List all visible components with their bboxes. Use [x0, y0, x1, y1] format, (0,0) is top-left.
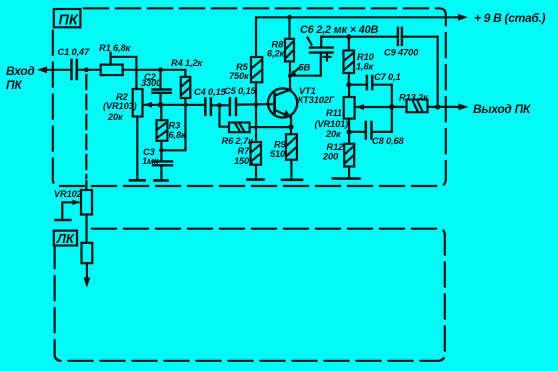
- resistor R2 (VR103): [133, 89, 143, 117]
- capacitor C3: [153, 160, 172, 162]
- C7/C8 vertical: [391, 85, 393, 132]
- capacitor C9: [397, 28, 400, 45]
- wire R1 to R4 corner: [123, 70, 186, 77]
- collector vertical: [289, 61, 291, 89]
- LK label box: [54, 231, 77, 246]
- svg-text:ПК: ПК: [6, 78, 23, 92]
- potentiometer VR102: [81, 190, 92, 215]
- 5V annotation leader: [293, 68, 300, 74]
- resistor R12: [344, 144, 354, 167]
- PK block dashed border: [53, 8, 446, 186]
- wire VR102 down: [85, 215, 87, 243]
- svg-text:ЛК: ЛК: [56, 231, 75, 246]
- wire C9 right, down to output: [402, 37, 438, 107]
- link R3 bottom to wiper junction: [161, 105, 185, 150]
- svg-text:(VR103): (VR103): [103, 101, 137, 111]
- lower resistor (LK section): [82, 243, 93, 263]
- ground under R7: [248, 178, 264, 181]
- R3 leads: [160, 105, 162, 120]
- R8 top lead: [288, 17, 290, 39]
- PK label box: [54, 9, 81, 27]
- svg-text:R4 1,2к: R4 1,2к: [171, 58, 203, 68]
- svg-text:510: 510: [270, 149, 286, 159]
- svg-text:Выход ПК: Выход ПК: [473, 102, 532, 116]
- svg-text:C5 0,15: C5 0,15: [224, 86, 256, 96]
- wire C5 to base: [236, 103, 273, 106]
- resistor R11 (VR101): [344, 97, 355, 119]
- svg-text:750к: 750к: [229, 71, 250, 81]
- svg-text:R11: R11: [326, 108, 342, 118]
- R10 leads: [348, 37, 350, 51]
- svg-text:C7 0,1: C7 0,1: [374, 72, 401, 82]
- R2 ground lead: [136, 117, 138, 181]
- resistor R9: [286, 134, 297, 160]
- VR102 wiper: [62, 202, 78, 220]
- resistor R3: [157, 120, 168, 141]
- node dots: [84, 15, 440, 153]
- R11 leads: [348, 85, 350, 97]
- input arrow: [37, 66, 47, 73]
- svg-text:R10: R10: [357, 52, 375, 62]
- transistor VT1: [268, 88, 297, 117]
- resistor R13: [407, 100, 428, 113]
- capacitor C8: [365, 122, 368, 139]
- wire R6 to emitter: [250, 126, 291, 128]
- svg-text:R6 2,7к: R6 2,7к: [222, 136, 254, 146]
- svg-text:R13 2к: R13 2к: [399, 93, 429, 103]
- svg-text:R3: R3: [169, 121, 182, 131]
- R12 leads: [348, 132, 350, 144]
- svg-text:5В: 5В: [299, 63, 311, 73]
- wire C1 to R1: [77, 69, 101, 71]
- svg-text:+ 9 В (стаб.): + 9 В (стаб.): [474, 11, 546, 25]
- svg-text:ПК: ПК: [59, 13, 79, 29]
- R7 ground lead: [255, 165, 257, 180]
- svg-text:VR102: VR102: [54, 189, 83, 199]
- dashed link to VR102: [85, 75, 87, 178]
- capacitor C1: [70, 60, 73, 79]
- C6 label leader: [308, 38, 312, 45]
- capacitor C6 (electrolytic): [310, 46, 333, 48]
- ground under R12: [333, 177, 360, 180]
- svg-text:6,8к: 6,8к: [169, 130, 187, 140]
- svg-text:1,8к: 1,8к: [356, 62, 374, 72]
- resistor R4: [181, 77, 191, 98]
- resistor R10: [344, 51, 355, 74]
- resistor R8: [285, 39, 294, 62]
- top coupling wire: [321, 36, 397, 38]
- svg-text:200: 200: [322, 152, 339, 162]
- wire C4 to C5: [211, 104, 230, 106]
- svg-text:C1 0,47: C1 0,47: [58, 47, 90, 57]
- R4 bottom lead: [184, 98, 186, 105]
- output wire: [392, 106, 407, 108]
- svg-text:R12: R12: [327, 142, 345, 152]
- resistor R1: [101, 65, 123, 76]
- capacitor C7: [366, 76, 369, 89]
- svg-text:C9 4700: C9 4700: [384, 48, 419, 58]
- resistor R6: [229, 123, 250, 133]
- wire junction down to R2: [135, 70, 137, 89]
- ground under R9: [282, 179, 302, 182]
- svg-text:6,2к: 6,2к: [267, 49, 285, 59]
- ground under C3: [155, 179, 168, 182]
- ground under VR102 wiper: [56, 219, 71, 222]
- svg-text:(VR101): (VR101): [315, 119, 349, 129]
- svg-text:R1 6,8к: R1 6,8к: [99, 43, 131, 53]
- svg-text:C4 0,15: C4 0,15: [194, 87, 226, 97]
- R1 tap: [111, 57, 137, 70]
- svg-text:C6 2,2 мк × 40В: C6 2,2 мк × 40В: [300, 24, 378, 36]
- svg-text:20к: 20к: [325, 129, 342, 139]
- svg-text:R9: R9: [274, 140, 287, 150]
- R11 wiper line: [357, 106, 392, 108]
- svg-text:3300: 3300: [141, 78, 162, 88]
- emitter vertical: [290, 117, 292, 134]
- R9 ground lead: [290, 160, 292, 180]
- svg-text:C8 0,68: C8 0,68: [372, 136, 404, 146]
- ground under R2: [130, 179, 145, 182]
- resistor R7: [251, 142, 262, 165]
- R2 wiper line: [145, 104, 206, 106]
- drop to R6: [220, 105, 230, 126]
- LK block dashed border: [55, 229, 445, 361]
- capacitor C4: [204, 99, 207, 115]
- svg-text:КТ3102Г: КТ3102Г: [298, 95, 336, 105]
- svg-text:Вход: Вход: [6, 64, 34, 78]
- R5-R7 vertical: [255, 82, 257, 142]
- input wire: [46, 69, 71, 71]
- C6 plus sign: [324, 56, 331, 58]
- capacitor C5: [229, 99, 232, 115]
- svg-text:1мк: 1мк: [142, 156, 160, 166]
- svg-text:20к: 20к: [107, 112, 124, 122]
- capacitor C2: [153, 88, 171, 90]
- down arrow: [86, 263, 88, 283]
- svg-text:R7: R7: [238, 146, 251, 156]
- supply rail: [256, 17, 462, 57]
- resistor R5: [251, 57, 262, 82]
- svg-text:150к: 150к: [234, 156, 255, 166]
